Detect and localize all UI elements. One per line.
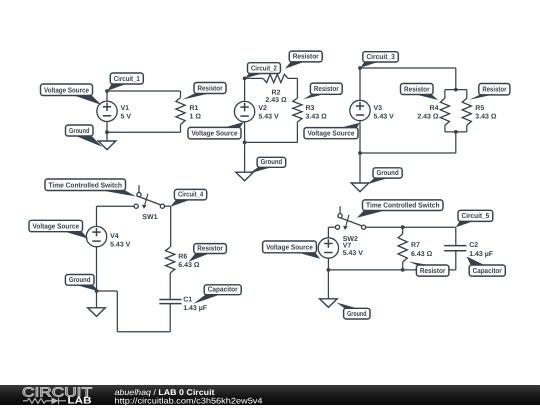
svg-text:R3: R3 [306, 105, 315, 112]
svg-text:5.43 V: 5.43 V [258, 113, 279, 120]
svg-text:Resistor: Resistor [293, 52, 319, 61]
svg-text:Circuit_1: Circuit_1 [114, 74, 140, 83]
svg-text:http://circuitlab.com/c3h56kh2: http://circuitlab.com/c3h56kh2ew5v4 [115, 396, 263, 405]
svg-text:Resistor: Resistor [420, 266, 446, 275]
svg-text:2.43 Ω: 2.43 Ω [417, 114, 439, 121]
svg-text:SW1: SW1 [142, 214, 157, 221]
svg-text:R1: R1 [190, 105, 199, 112]
svg-text:5.43 V: 5.43 V [374, 113, 395, 120]
svg-text:V2: V2 [258, 105, 267, 112]
svg-text:1.43 µF: 1.43 µF [469, 251, 494, 258]
svg-text:R7: R7 [411, 242, 420, 249]
svg-text:Resistor: Resistor [197, 243, 223, 252]
svg-text:Ground: Ground [377, 168, 399, 177]
svg-text:5.43 V: 5.43 V [343, 250, 364, 257]
svg-text:Circuit_4: Circuit_4 [178, 190, 203, 199]
svg-text:5.43 V: 5.43 V [110, 241, 131, 248]
svg-text:Circuit_3: Circuit_3 [366, 52, 395, 61]
svg-text:Capacitor: Capacitor [208, 285, 238, 294]
svg-text:R5: R5 [475, 105, 484, 112]
svg-text:LAB: LAB [68, 395, 92, 405]
svg-text:Resistor: Resistor [404, 84, 430, 93]
svg-text:C1: C1 [183, 297, 192, 304]
svg-text:Time Controlled Switch: Time Controlled Switch [48, 180, 122, 189]
svg-text:Circuit_5: Circuit_5 [462, 211, 490, 220]
svg-text:R2: R2 [272, 89, 281, 96]
svg-text:Circuit_2: Circuit_2 [251, 63, 277, 72]
svg-text:Ground: Ground [261, 157, 283, 166]
svg-text:3.43 Ω: 3.43 Ω [306, 114, 328, 121]
svg-text:C2: C2 [469, 242, 478, 249]
svg-text:Time Controlled Switch: Time Controlled Switch [366, 200, 440, 209]
svg-text:3.43 Ω: 3.43 Ω [475, 114, 497, 121]
svg-text:Voltage Source: Voltage Source [308, 129, 355, 138]
svg-text:Voltage Source: Voltage Source [192, 129, 238, 138]
svg-text:Resistor: Resistor [198, 83, 223, 92]
svg-text:Ground: Ground [69, 126, 90, 135]
svg-text:R6: R6 [178, 254, 187, 261]
svg-text:Voltage Source: Voltage Source [266, 243, 313, 252]
svg-text:V3: V3 [374, 105, 383, 112]
svg-text:R4: R4 [430, 105, 439, 112]
svg-text:V1: V1 [121, 105, 130, 112]
svg-text:Voltage Source: Voltage Source [33, 222, 80, 231]
svg-text:1.43 µF: 1.43 µF [183, 305, 208, 312]
svg-text:6.43 Ω: 6.43 Ω [178, 262, 200, 269]
svg-text:Resistor: Resistor [314, 84, 339, 93]
svg-text:Ground: Ground [347, 309, 366, 318]
svg-text:Voltage Source: Voltage Source [44, 85, 89, 94]
svg-text:2.43 Ω: 2.43 Ω [265, 97, 287, 104]
svg-text:5 V: 5 V [121, 113, 132, 120]
svg-text:V4: V4 [110, 233, 119, 240]
svg-text:Capacitor: Capacitor [473, 266, 502, 275]
svg-text:1 Ω: 1 Ω [190, 114, 202, 121]
svg-text:Ground: Ground [69, 275, 91, 284]
svg-text:Resistor: Resistor [482, 85, 506, 94]
svg-text:6.43 Ω: 6.43 Ω [411, 251, 433, 258]
svg-text:V7: V7 [343, 243, 352, 250]
